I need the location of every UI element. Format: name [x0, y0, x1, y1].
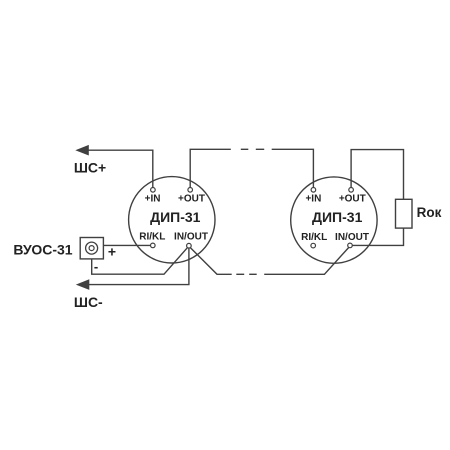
arrowhead ШС+ — [75, 145, 89, 156]
svg-text:ШС+: ШС+ — [74, 160, 106, 176]
terminal U2 +IN — [311, 188, 316, 193]
svg-text:+: + — [108, 244, 116, 260]
wire U2 +OUT to resistor Rok top — [351, 150, 403, 200]
terminal U1 IN/OUT — [187, 243, 192, 248]
svg-text:+IN: +IN — [305, 194, 321, 205]
arrowhead ШС- — [76, 279, 90, 290]
terminal U2 +OUT — [349, 188, 354, 193]
wire dash segment bottom 1 — [236, 273, 244, 275]
device ВУОС-31 indicator inner circle — [89, 246, 94, 251]
svg-text:+OUT: +OUT — [339, 194, 366, 205]
wire dash segment top 1 — [241, 148, 249, 150]
svg-text:Rок: Rок — [417, 205, 442, 220]
svg-text:ШС-: ШС- — [74, 294, 103, 310]
svg-text:IN/OUT: IN/OUT — [335, 232, 369, 243]
svg-text:IN/OUT: IN/OUT — [174, 232, 208, 243]
terminal U1 +OUT — [188, 188, 193, 193]
wire ШС- from U1 IN/OUT — [89, 248, 189, 285]
terminal U2 RI/KL — [311, 243, 316, 248]
svg-text:+IN: +IN — [145, 194, 161, 205]
svg-text:ДИП-31: ДИП-31 — [150, 209, 201, 225]
terminal U1 RI/KL — [151, 243, 156, 248]
wire ВУОС-31 plus to U1 RI/KL — [104, 244, 151, 246]
resistor Rok body — [396, 199, 413, 228]
wire bottom right diagonal into U2 IN/OUT — [264, 248, 348, 275]
wire dash segment bottom 2 — [249, 273, 257, 275]
device ВУОС-31 box — [80, 238, 103, 259]
detector U2 ДИП-31 body circle — [291, 177, 377, 263]
detector U1 ДИП-31 body circle — [129, 177, 215, 263]
svg-text:-: - — [94, 259, 98, 274]
wire ШС+ line to U1 +IN — [88, 150, 153, 187]
wire dash segment top 2 — [256, 148, 264, 150]
terminal U1 +IN — [151, 188, 156, 193]
wire U1 +OUT to U2 +IN (dashed break) — [190, 149, 231, 187]
svg-text:+OUT: +OUT — [178, 194, 205, 205]
wire resistor Rok bottom to U2 IN/OUT — [352, 228, 403, 245]
svg-text:RI/KL: RI/KL — [139, 232, 165, 243]
device ВУОС-31 indicator outer circle — [86, 242, 98, 254]
wire top right into U2 +IN — [272, 149, 314, 187]
svg-text:ВУОС-31: ВУОС-31 — [13, 241, 72, 257]
svg-text:ДИП-31: ДИП-31 — [312, 209, 363, 225]
wire U1 IN/OUT down-right diagonal — [190, 248, 231, 275]
wire ВУОС-31 minus to U1 IN/OUT — [92, 248, 188, 275]
terminal U2 IN/OUT — [348, 243, 353, 248]
svg-text:RI/KL: RI/KL — [301, 232, 327, 243]
